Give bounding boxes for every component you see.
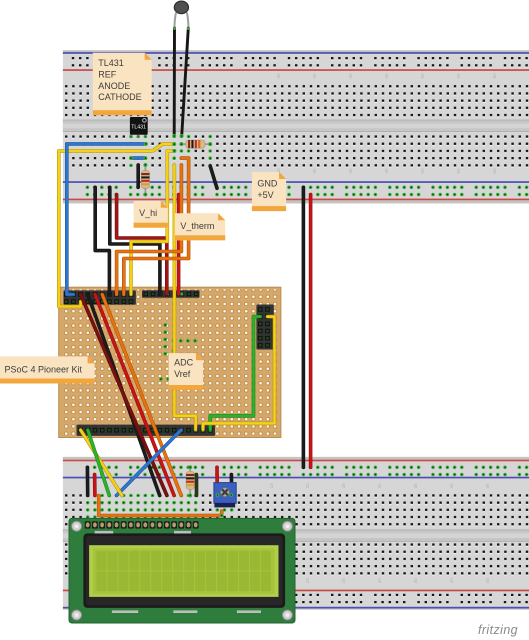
BB2 column numbers	[269, 483, 490, 583]
wire W2 blue: BB1 row g (TL431 ref) to header J1 pin1	[67, 142, 148, 295]
svg-text:CATHODE: CATHODE	[98, 92, 141, 102]
breadboard BB2 (bottom, flipped)	[63, 457, 529, 610]
svg-text:30: 30	[377, 578, 382, 584]
svg-text:V_therm: V_therm	[180, 221, 214, 231]
wire W27 dark jumper: BB2 rail to row a	[195, 475, 199, 496]
BB1 top power rail holes	[72, 57, 528, 68]
svg-text:60: 60	[492, 73, 497, 79]
svg-text:PSoC 4 Pioneer Kit: PSoC 4 Pioneer Kit	[5, 365, 83, 375]
wire W30 orange: BB2 row a to trimpot wiper column	[99, 496, 224, 518]
svg-text:45: 45	[485, 483, 490, 489]
wire W21 orange diagonal: header J1 to LCD pin column	[102, 294, 181, 495]
wire W1 yellow: BB1 row g to PSoC header J1 pin2	[59, 142, 176, 306]
svg-text:50: 50	[420, 73, 425, 79]
svg-text:40: 40	[348, 73, 353, 79]
wire W7 red: BB1 rail to header J2 pin6	[177, 195, 181, 295]
svg-text:TL431: TL431	[98, 58, 124, 68]
trimpot RV1 (contrast)	[214, 483, 236, 508]
BB2 top power rail holes (bus, connected=green)	[86, 466, 529, 477]
wire W5 black: BB1 GND rail to header J2 pin3	[110, 187, 160, 294]
nodes: connected breadboard holes (green)	[86, 135, 234, 519]
wire W10 orange: BB1 row j to header J1 pin8	[117, 165, 182, 295]
wire W18 black diagonal: header J1 to LCD pin column	[88, 294, 160, 495]
svg-text:35: 35	[312, 168, 317, 174]
wire W15 red: BB1 +5V rail down to BB2 rail	[309, 195, 313, 468]
wire W19 maroon diagonal: header J1 to LCD pin column	[81, 294, 167, 495]
resistor R1 (top board, horizontal, row g)	[179, 140, 212, 148]
BB2 bottom power rail holes	[72, 594, 528, 605]
wire W28 red: BB2 rail to trimpot pin 1	[215, 467, 219, 495]
svg-text:30: 30	[276, 73, 281, 79]
header J3 (perfboard bottom, 19-pin)	[77, 425, 216, 436]
wire W6 dark red: BB1 rail to header J2 pin4	[117, 195, 167, 295]
svg-text:25: 25	[341, 578, 346, 584]
BB2 main holes rows f-j	[64, 541, 529, 577]
svg-text:ANODE: ANODE	[98, 81, 130, 91]
BB1 bottom power rail holes (GND/+5V bus, connected=green)	[86, 186, 529, 197]
wire W20 red diagonal: header J1 to LCD pin column	[95, 294, 174, 495]
BB1 main holes rows a-e	[64, 83, 529, 119]
breadboard BB1 (top)	[63, 50, 529, 203]
svg-text:20: 20	[305, 578, 310, 584]
note: GND +5V rails	[252, 172, 286, 211]
wire W13 black diagonal: BB1 row j to rail	[210, 166, 217, 188]
svg-text:40: 40	[348, 168, 353, 174]
svg-text:GND: GND	[257, 179, 278, 189]
svg-text:55: 55	[456, 168, 461, 174]
svg-text:20: 20	[305, 483, 310, 489]
wire W22 blue diagonal: header J3 to LCD pin column	[117, 430, 182, 496]
svg-text:TL431: TL431	[131, 125, 146, 131]
BB1 column numbers	[276, 73, 497, 174]
thermistor TH1	[172, 1, 189, 138]
svg-text:60: 60	[492, 168, 497, 174]
wire W26 red jumper: BB2 rail to row a	[93, 475, 97, 496]
svg-text:45: 45	[384, 73, 389, 79]
LCD1 16x2 display	[69, 518, 295, 623]
node: perfboard connected pads (green)	[159, 323, 197, 381]
svg-text:+5V: +5V	[257, 190, 273, 200]
wire W25 black jumper: BB2 rail to row a	[86, 467, 90, 495]
svg-text:Vref: Vref	[174, 369, 191, 379]
op-amp U1 TL431 shunt regulator	[130, 117, 148, 137]
note: V_therm	[175, 213, 225, 240]
svg-text:15: 15	[269, 483, 274, 489]
BB2 main holes rows a-e	[64, 492, 529, 528]
svg-text:30: 30	[377, 483, 382, 489]
svg-text:50: 50	[420, 168, 425, 174]
wire W4 black: BB1 GND rail to header J1 pin6	[95, 187, 109, 294]
wire W29 black: BB2 rail to trimpot pin 3	[230, 475, 234, 496]
wire W23 yellow diagonal: header J3 to BB2	[81, 430, 122, 496]
wire W12 black jumper: BB1 row j to GND rail	[136, 165, 140, 187]
svg-text:35: 35	[413, 483, 418, 489]
note: ADC Vref	[169, 353, 203, 390]
svg-text:35: 35	[413, 578, 418, 584]
svg-text:V_hi: V_hi	[139, 208, 157, 218]
svg-text:40: 40	[449, 483, 454, 489]
wire W14 black: BB1 GND rail down to BB2 rail	[302, 187, 306, 467]
wire W3 blue short jumper: BB1 row i	[129, 156, 147, 160]
note: V_hi	[134, 201, 168, 228]
wire W9 yellow (ADC Vref): BB1 row j to header J3	[174, 165, 195, 430]
resistor R2 (top board, vertical)	[141, 163, 149, 197]
svg-text:45: 45	[485, 578, 490, 584]
svg-text:REF: REF	[98, 70, 117, 80]
header J2 (perfboard top-right, 8-pin)	[142, 290, 200, 298]
header J4 (perfboard right, 2x6)	[256, 305, 273, 350]
wire W8 yellow: BB1 row h to perfboard pad	[131, 149, 176, 295]
note: TL431 pinout	[93, 53, 152, 115]
header J1 (perfboard top-left, 2x10)	[64, 290, 136, 304]
svg-text:25: 25	[341, 483, 346, 489]
BB1 main holes rows f-j	[64, 133, 529, 169]
wire W24 green diagonal: header J3 to BB2	[88, 430, 110, 496]
svg-text:45: 45	[384, 168, 389, 174]
note: PSoC 4 Pioneer Kit	[0, 356, 95, 383]
svg-text:ADC: ADC	[174, 358, 194, 368]
svg-text:fritzing: fritzing	[478, 623, 518, 637]
resistor R3 (bottom board, vertical)	[186, 465, 194, 497]
perfboard (PSoC 4 Pioneer Kit board)	[59, 287, 281, 437]
wire W11 orange: BB1 row i to header J1 pin9	[124, 158, 189, 294]
svg-text:55: 55	[456, 73, 461, 79]
wire W17 yellow: header J4 to header J3	[203, 317, 275, 430]
svg-text:40: 40	[449, 578, 454, 584]
wire W16 green: header J4 to header J3	[210, 317, 260, 430]
svg-text:35: 35	[312, 73, 317, 79]
